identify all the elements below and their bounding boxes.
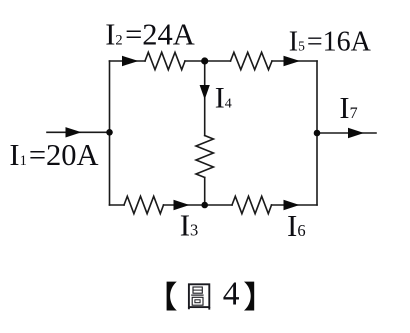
resistor R4 bottom-right [232,196,272,213]
resistor R3 bottom-left [124,196,164,213]
wire right vertical [316,61,318,205]
svg-text:4: 4 [223,276,240,313]
node right junction [314,130,321,137]
wire middle vertical upper [204,61,206,136]
wire bottom right segment [272,204,318,206]
arrow I2 current top-left [122,56,139,66]
wire top right segment [272,60,317,62]
wire top middle segment [185,60,231,62]
node left junction [106,129,113,136]
wire input I1 [47,131,110,133]
resistor R1 top-left [145,52,185,69]
caption bracket right [244,282,254,311]
wire middle vertical lower [204,178,206,206]
wire top left segment [110,60,146,62]
wire output I7 [317,132,376,134]
resistor R5 middle vertical [196,136,213,178]
wire bottom left segment [110,204,125,206]
arrow I6 current bottom-right [284,200,300,210]
node bottom middle junction [201,202,208,209]
arrow I7 current output [348,128,364,138]
arrow I4 current down [200,85,210,100]
resistor R2 top-right [231,52,273,69]
node top middle junction [201,57,208,64]
wire left vertical [109,61,111,205]
caption character tu (figure) [189,284,209,309]
arrow I3 current bottom-left [174,200,190,210]
wire bottom middle segment [164,204,233,206]
arrow I1 current input [66,127,82,137]
arrow I5 current top-right [284,56,301,66]
caption bracket left [167,282,177,311]
